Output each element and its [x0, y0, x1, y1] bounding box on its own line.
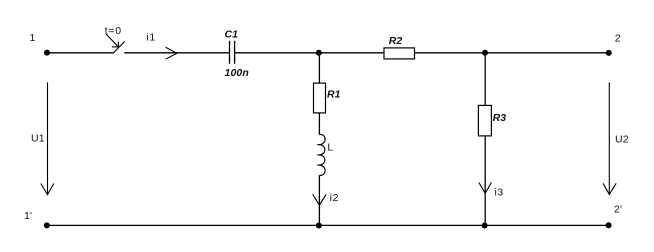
svg-text:U2: U2 — [615, 134, 629, 146]
svg-text:R1: R1 — [327, 89, 341, 101]
svg-text:L: L — [327, 141, 333, 153]
svg-text:2: 2 — [615, 32, 621, 44]
svg-text:2': 2' — [614, 204, 622, 216]
svg-text:i2: i2 — [330, 192, 340, 204]
svg-text:i1: i1 — [146, 32, 156, 44]
svg-text:1': 1' — [24, 210, 32, 222]
svg-text:C1: C1 — [225, 29, 239, 41]
svg-text:100n: 100n — [225, 67, 249, 79]
svg-text:U1: U1 — [31, 133, 45, 145]
svg-text:i3: i3 — [495, 186, 504, 198]
svg-text:1: 1 — [30, 32, 36, 44]
svg-text:t=0: t=0 — [105, 25, 122, 37]
svg-text:R2: R2 — [389, 35, 403, 47]
svg-text:R3: R3 — [493, 112, 507, 124]
